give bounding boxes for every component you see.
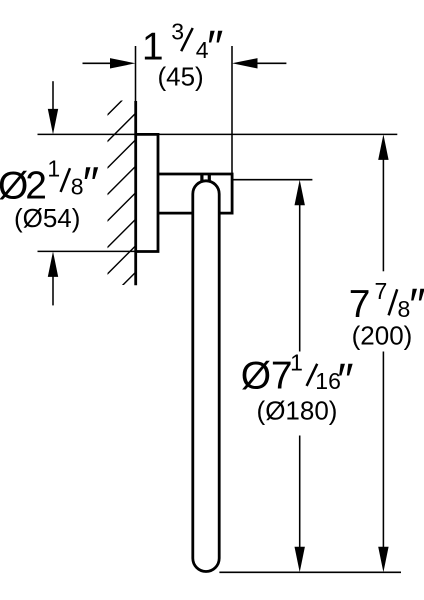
svg-text:″: ″ — [83, 157, 99, 209]
svg-text:(Ø54): (Ø54) — [14, 203, 80, 233]
svg-text:3: 3 — [171, 19, 184, 45]
svg-text:″: ″ — [337, 353, 353, 405]
svg-text:1: 1 — [47, 155, 60, 181]
svg-text:Ø: Ø — [0, 165, 28, 208]
svg-text:1: 1 — [290, 350, 303, 376]
svg-text:8: 8 — [71, 174, 84, 200]
svg-text:2: 2 — [25, 165, 47, 208]
svg-text:″: ″ — [207, 21, 223, 73]
svg-text:Ø: Ø — [241, 355, 271, 398]
svg-text:(45): (45) — [157, 61, 203, 91]
svg-text:7: 7 — [375, 278, 388, 304]
svg-text:(200): (200) — [352, 321, 413, 351]
svg-text:(Ø180): (Ø180) — [257, 396, 338, 426]
